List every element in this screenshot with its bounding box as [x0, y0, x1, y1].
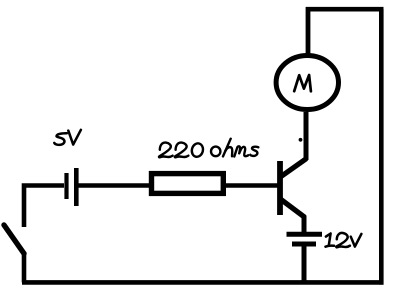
wire: resistor to transistor base [226, 183, 278, 188]
battery B2 12v top plate (long) [287, 232, 323, 237]
wire: top rail [306, 7, 384, 12]
label 220 ohms [159, 139, 258, 158]
battery B1 5V left plate (short) [64, 173, 68, 199]
wire: bottom rail [22, 280, 384, 285]
transistor Q1 emitter diagonal [281, 200, 305, 218]
wire: lower-left vertical into bottom rail [22, 252, 27, 282]
wire: right rail [379, 9, 384, 284]
wire: 12v battery to bottom rail [302, 244, 307, 282]
label 12v [326, 233, 362, 247]
wire: emitter to 12v battery [302, 216, 307, 235]
resistor R1 body [152, 174, 224, 194]
wire: collector to motor [304, 112, 309, 160]
wire: motor top lead [306, 7, 311, 55]
battery B1 5V right plate (long) [74, 168, 79, 206]
ink dot near collector [299, 138, 303, 142]
switch S1 blade (diagonal) [4, 225, 24, 254]
motor M1 circle [276, 56, 338, 110]
wire: top-left horizontal with corner down [24, 186, 64, 228]
wire: battery to resistor [78, 183, 151, 188]
label 5V [54, 130, 81, 145]
transistor Q1 collector diagonal [281, 159, 307, 177]
battery B2 12v bottom plate (short) [292, 242, 316, 247]
label M [294, 75, 311, 91]
transistor Q1 base bar [277, 161, 283, 215]
